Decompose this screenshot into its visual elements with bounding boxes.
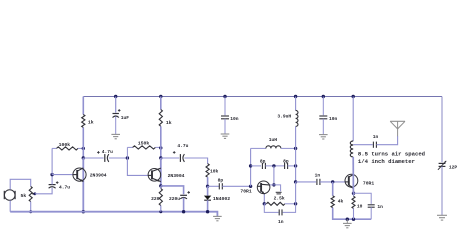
svg-text:1k: 1k — [88, 120, 94, 126]
wire bottom rail — [10, 212, 217, 216]
svg-text:1n: 1n — [278, 219, 284, 225]
wire tank to output tap — [295, 166, 297, 182]
wire C13 to ground — [115, 116, 117, 134]
wire C2 to node — [109, 157, 128, 159]
node output tap — [294, 180, 297, 183]
wire into Q2 collector — [160, 158, 162, 186]
svg-text:100k: 100k — [59, 142, 71, 148]
node R5 at rail — [159, 210, 162, 213]
wire base node up to R1 — [51, 148, 53, 174]
wire wiper to C1 — [35, 188, 52, 194]
node rail-R4 — [159, 95, 162, 98]
transistor Q3 70R1 — [345, 174, 374, 188]
node C3 at rail — [182, 210, 185, 213]
capacitor C10 1n — [368, 204, 383, 210]
wire rail to R4 — [160, 97, 162, 110]
capacitor C5 8p — [218, 178, 224, 190]
wire C1 to base node — [51, 175, 53, 185]
wire node to D1 — [207, 186, 209, 195]
wire rail to C13 — [115, 97, 117, 113]
wire emitter to C10 — [354, 193, 372, 204]
wire C9 to Q3 base — [320, 181, 345, 183]
wire R4 to collector node — [160, 126, 162, 148]
svg-text:10n: 10n — [329, 116, 338, 122]
svg-text:12P: 12P — [449, 164, 458, 170]
wire between C7 C8 — [265, 165, 284, 167]
transistor Q2 2N3904 — [148, 168, 185, 181]
wire rail to C14 — [224, 97, 226, 116]
wire Q2 to C4 — [161, 157, 179, 159]
node Q1 emitter at rail — [82, 210, 85, 213]
svg-text:1N4002: 1N4002 — [213, 196, 230, 202]
svg-text:2N3904: 2N3904 — [168, 173, 185, 179]
node wiper — [34, 192, 37, 195]
antenna ANT1 — [390, 121, 405, 136]
inductor L1 3.9uH — [277, 110, 298, 126]
wire tank left — [250, 148, 252, 186]
wire C6 to right — [283, 204, 296, 213]
label L3 turns — [358, 151, 425, 165]
capacitor C12 12P — [438, 161, 458, 171]
wire trimmer to ground — [441, 166, 443, 215]
svg-text:2.5k: 2.5k — [274, 196, 285, 202]
node local rail R9 — [352, 218, 355, 221]
node Q1 coupling — [82, 156, 85, 159]
svg-text:70R1: 70R1 — [240, 189, 251, 195]
wire emitter to C6 — [264, 204, 278, 213]
node Q3 emitter — [352, 192, 355, 195]
svg-text:8.5 turns air spaced: 8.5 turns air spaced — [358, 151, 425, 158]
wiper arrow of R10 — [31, 193, 35, 195]
wire node to R8 — [332, 182, 334, 196]
wire collector node down — [82, 148, 84, 158]
svg-text:1n: 1n — [377, 204, 383, 210]
svg-text:1uF: 1uF — [121, 115, 130, 121]
capacitor C15 10n — [319, 116, 337, 122]
potentiometer R10 5k — [21, 186, 33, 201]
ground main rail — [213, 216, 222, 220]
svg-text:10k: 10k — [210, 168, 219, 174]
wire supply rail — [83, 96, 442, 98]
wire node down to Q2 base — [127, 158, 147, 175]
wire rail corner to R2 — [82, 97, 84, 115]
wire rail to trimmer C12 — [441, 97, 443, 163]
transistor Q1 2N3904 — [73, 168, 107, 182]
wire rail to L3 — [352, 97, 354, 142]
node tank left/caps — [249, 164, 252, 167]
wire L1 to tank — [295, 126, 297, 148]
svg-text:8p: 8p — [260, 158, 266, 164]
wire R2 to collector node — [82, 128, 84, 149]
wire R6 to varactor node — [207, 177, 209, 186]
wire L3 tap to C11 — [353, 144, 373, 146]
svg-text:2N3904: 2N3904 — [90, 172, 107, 178]
svg-text:150k: 150k — [138, 141, 150, 147]
capacitor C6 1n — [278, 209, 284, 224]
node R7 right — [294, 202, 297, 205]
wire C4 to R6 — [184, 158, 207, 164]
wire caps row right — [288, 165, 296, 167]
node tank right top — [294, 147, 297, 150]
node osc collector — [272, 183, 275, 186]
wire base node to Q1 — [52, 174, 73, 176]
svg-text:10n: 10n — [230, 116, 239, 122]
transistor Q4 70R1 — [240, 181, 270, 195]
node Q3 base/R8 — [331, 180, 334, 183]
resistor R3 150k — [127, 141, 160, 149]
wire D1 to rail — [207, 200, 209, 212]
capacitor C2 4.7u — [97, 149, 113, 162]
ground near C14 — [221, 134, 230, 138]
svg-text:3.9uH: 3.9uH — [277, 114, 291, 120]
node varactor — [206, 185, 209, 188]
wire to trimmer element — [274, 185, 281, 191]
wire emitter to C3 — [161, 186, 184, 194]
wire rail to C15 — [322, 97, 324, 116]
resistor R6 10k — [206, 164, 219, 178]
svg-text:1/4 inch diameter: 1/4 inch diameter — [358, 158, 415, 165]
wire node up to R3 — [126, 147, 128, 158]
svg-text:4.7u: 4.7u — [59, 184, 70, 190]
wire R8 to local ground rail — [333, 208, 372, 220]
svg-text:1n: 1n — [373, 134, 379, 140]
node rail-C14 — [223, 95, 226, 98]
svg-text:1uH: 1uH — [269, 137, 278, 143]
wire tank right segment — [295, 148, 297, 166]
svg-text:220: 220 — [151, 196, 160, 202]
node C2/R3 — [126, 156, 129, 159]
wire collector node down Q2 — [160, 148, 162, 158]
node Q1 base — [50, 173, 53, 176]
wire mic top to pot — [10, 179, 31, 189]
node rail-L3 — [352, 95, 355, 98]
resistor R7 2.5k — [264, 196, 295, 206]
wire tap down to R7 — [295, 182, 297, 204]
node rail-C15 — [322, 95, 325, 98]
node rail-C13 — [114, 95, 117, 98]
capacitor C4 4.7u — [173, 143, 189, 162]
node rail-L1 — [294, 95, 297, 98]
wire Q4 emitter — [263, 194, 265, 203]
capacitor C14 10n — [221, 116, 239, 122]
svg-text:1n: 1n — [315, 172, 321, 178]
wire centre tap to collector — [273, 166, 275, 185]
ground near C13 — [111, 134, 120, 138]
svg-text:1k: 1k — [166, 120, 172, 126]
resistor R4 1k — [159, 110, 172, 127]
node tank right bottom — [294, 164, 297, 167]
svg-text:220u: 220u — [169, 196, 180, 202]
svg-text:8p: 8p — [218, 178, 224, 184]
svg-text:4k: 4k — [338, 198, 344, 204]
wire Q1 to C2 — [83, 157, 103, 159]
wire into Q1 collector — [82, 158, 84, 212]
wire C5 to osc base — [222, 185, 250, 187]
svg-text:4.7u: 4.7u — [102, 149, 113, 155]
resistor R8 4k — [331, 196, 343, 208]
wire L3 to Q3 collector — [352, 157, 354, 193]
inductor L2 1uH — [251, 137, 296, 148]
capacitor C9 1n — [315, 172, 321, 185]
svg-text:8p: 8p — [283, 158, 289, 164]
microphone MIC1 — [4, 190, 15, 201]
capacitor C13 1uF — [113, 109, 130, 121]
ground Q3 stage — [343, 219, 352, 228]
trimmer element plates — [276, 192, 282, 194]
wire C14 to ground — [224, 119, 226, 134]
resistor R1 100k — [52, 142, 83, 150]
capacitor C8 8p — [283, 158, 289, 169]
capacitor C3 220u — [169, 191, 190, 202]
node osc base — [249, 185, 252, 188]
wire C15 to ground — [322, 119, 324, 135]
node Q2 emitter — [159, 184, 162, 187]
svg-text:10: 10 — [357, 204, 363, 210]
wire C11 to antenna — [376, 136, 397, 145]
node D1 at rail — [206, 210, 209, 213]
node Q2 coupling — [159, 156, 162, 159]
wire caps row left — [251, 165, 261, 167]
wire node to C5 — [208, 185, 220, 187]
resistor R9 10 — [352, 193, 363, 219]
wire mic bottom — [9, 200, 11, 211]
wire pot bottom — [30, 202, 32, 212]
svg-text:5k: 5k — [21, 193, 27, 199]
ground near C15 — [319, 135, 328, 139]
capacitor C11 1n — [373, 134, 379, 148]
resistor R2 1k — [82, 115, 94, 128]
wire C10 down — [370, 207, 372, 219]
ground far right — [437, 215, 447, 220]
capacitor C1 4.7u — [49, 181, 71, 190]
svg-text:70R1: 70R1 — [363, 180, 374, 186]
wire tap to C9 — [296, 181, 316, 183]
node R3/R4 — [159, 146, 162, 149]
node pot at rail — [29, 210, 32, 213]
wire collector stub — [269, 184, 274, 186]
node tank centre tap — [272, 164, 275, 167]
node Q1 collector/R1 — [82, 147, 85, 150]
resistor R5 220 — [151, 186, 162, 212]
inductor L3 8.5 turns — [350, 141, 353, 157]
wire C3 to rail — [183, 198, 185, 212]
wire rail to L1 — [295, 97, 297, 111]
capacitor C7 8p — [260, 158, 266, 169]
node local rail ground — [346, 218, 349, 221]
node Q4 emitter — [263, 202, 266, 205]
diode D1 1N4002 — [204, 196, 230, 203]
svg-text:4.7u: 4.7u — [177, 143, 188, 149]
